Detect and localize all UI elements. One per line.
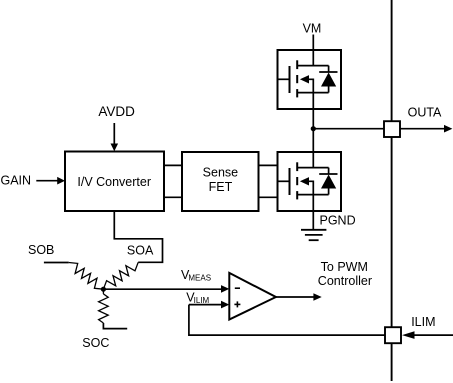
wire VILIM to comparator plus input xyxy=(189,304,222,306)
pin OUTA square xyxy=(384,121,400,137)
svg-text:MEAS: MEAS xyxy=(188,273,211,282)
wire SOC bottom lead xyxy=(103,323,127,329)
svg-text:SOB: SOB xyxy=(28,243,54,257)
wire VMEAS to comparator minus input xyxy=(103,288,221,290)
resistor SOB xyxy=(69,263,104,290)
node OUTA junction xyxy=(311,126,316,131)
svg-text:PGND: PGND xyxy=(320,213,356,227)
svg-text:Controller: Controller xyxy=(318,274,372,288)
wire SOB lead xyxy=(44,262,69,264)
wire VILIM feedback from ILIM pin xyxy=(189,305,385,336)
svg-text:VM: VM xyxy=(303,21,322,35)
wire Sense FET to Q2 gate (upper) xyxy=(259,164,278,166)
op-amp U1 I/V Converter block xyxy=(65,152,164,212)
svg-text:Sense: Sense xyxy=(203,166,238,180)
wire GAIN arrow into U1 xyxy=(36,180,58,182)
wire Q1 source to Q2 drain xyxy=(312,109,314,152)
wire Q2 source to ground xyxy=(312,211,314,230)
wire Sense FET to Q2 gate (lower) xyxy=(259,196,278,198)
wire U1 bottom to SOA lead xyxy=(114,211,162,262)
ground PGND symbol xyxy=(301,230,326,240)
svg-text:ILIM: ILIM xyxy=(194,296,210,305)
transistor Q1 (high-side FET cell) xyxy=(278,50,342,109)
wire U1 to Sense FET (upper) xyxy=(164,164,182,166)
wire ILIM input arrow xyxy=(414,334,453,336)
resistor SOC xyxy=(102,289,104,294)
transistor Q2 (low-side sense FET cell) xyxy=(278,152,342,211)
transistor Sense FET block xyxy=(182,152,259,211)
node SO junction xyxy=(101,287,106,292)
wire junction to OUTA pin xyxy=(313,128,384,130)
pin plus xyxy=(234,303,240,305)
wire VM to Q1 drain xyxy=(312,35,314,51)
svg-text:SOC: SOC xyxy=(82,336,109,350)
svg-text:AVDD: AVDD xyxy=(98,104,135,119)
svg-text:FET: FET xyxy=(209,180,233,194)
wire OUTA/ILIM vertical bus xyxy=(391,0,393,381)
svg-text:SOA: SOA xyxy=(127,243,154,257)
svg-text:To PWM: To PWM xyxy=(321,260,368,274)
wire comparator output to PWM xyxy=(276,296,315,298)
wire AVDD arrow into U1 xyxy=(113,123,115,144)
svg-text:OUTA: OUTA xyxy=(408,106,442,120)
wire OUTA output arrow xyxy=(400,128,445,130)
pin ILIM square xyxy=(385,327,401,343)
op-amp U2 comparator xyxy=(229,273,276,320)
svg-text:I/V Converter: I/V Converter xyxy=(77,175,151,189)
svg-text:GAIN: GAIN xyxy=(1,173,32,187)
pin minus xyxy=(235,287,240,289)
wire U1 to Sense FET (lower) xyxy=(164,196,182,198)
resistor SOA xyxy=(103,262,138,289)
svg-text:ILIM: ILIM xyxy=(411,315,435,329)
